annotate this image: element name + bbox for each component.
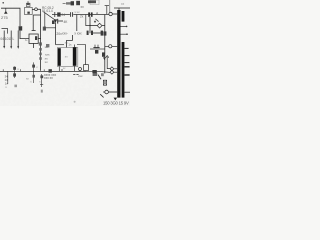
bottom-left pin column <box>7 71 9 84</box>
svg-text:81 01.4: 81 01.4 <box>42 9 53 13</box>
svg-text:xx: xx <box>81 5 85 9</box>
wire y44.5 across <box>56 44 64 46</box>
transformer bar right segment top <box>122 11 125 22</box>
transformer bar right segment main <box>122 42 125 98</box>
svg-text:x xx: x xx <box>75 10 81 14</box>
svg-text:1x: 1x <box>68 43 72 47</box>
capacitor C1 top <box>26 3 30 6</box>
blob <box>76 1 80 5</box>
diode D1 <box>54 19 57 22</box>
svg-text:04 1011 L: 04 1011 L <box>0 37 14 41</box>
component blob on bus <box>57 12 60 16</box>
node circle bottom right <box>105 90 109 94</box>
wire <box>32 8 34 10</box>
filter box FL1 <box>57 48 77 67</box>
filter left plate <box>58 48 61 66</box>
dot top-left <box>2 2 4 4</box>
wire top-left horizontal <box>1 8 20 26</box>
antenna T1 <box>5 8 7 11</box>
vertical x104.8 <box>104 15 106 74</box>
junction tick <box>54 12 56 17</box>
ground arrow below bars <box>114 98 117 101</box>
wire from bus down to filter <box>76 15 78 32</box>
node A <box>35 8 38 11</box>
fuse on bus <box>49 69 52 72</box>
lead from filter to bus <box>58 66 60 72</box>
arrow tick mid-right <box>107 57 110 69</box>
transformer bar left <box>117 10 120 98</box>
wire <box>37 8 40 10</box>
node diamond <box>97 23 102 28</box>
dashes below <box>73 74 78 76</box>
main bus y14.5 <box>52 14 70 16</box>
cluster mid-right <box>90 48 105 50</box>
bottom bus <box>0 70 86 72</box>
resistor R2 blob top <box>66 2 72 4</box>
svg-text:xx: xx <box>121 2 125 6</box>
resistor R3 top-right <box>88 0 96 3</box>
wire short vertical <box>44 13 46 26</box>
vertical x106.8 top <box>106 6 108 14</box>
pointer line <box>44 12 57 21</box>
connector pins left <box>3 31 5 47</box>
svg-text:04: 04 <box>61 13 65 17</box>
transistor Q1 blob <box>19 26 23 30</box>
box above bus x84-88 <box>84 65 89 71</box>
wire y27.8 <box>46 27 56 29</box>
wire bus stub <box>33 14 40 16</box>
vertical x85.8 <box>86 15 90 26</box>
svg-text:xx: xx <box>45 60 49 64</box>
small comp above node <box>103 80 106 85</box>
vertical x110 top right <box>109 0 111 12</box>
pins right side <box>121 25 128 27</box>
wire L bottom-left <box>2 29 8 34</box>
wire vertical main left-mid <box>40 9 42 71</box>
svg-text:2x: 2x <box>80 15 84 19</box>
box K1 <box>25 7 33 14</box>
svg-text:xxx-: xxx- <box>62 32 68 36</box>
filter right plate <box>73 47 77 66</box>
svg-text:xxx xx: xxx xx <box>44 76 53 80</box>
right connector: top line <box>114 7 130 9</box>
svg-text:x xxx: x xxx <box>74 31 82 35</box>
node diamonds left of bars <box>110 67 114 71</box>
svg-text:xx: xx <box>65 41 69 45</box>
node circle above bus <box>79 68 82 71</box>
wire <box>20 31 29 39</box>
IC U1 box <box>29 34 38 43</box>
node B circle <box>109 12 112 15</box>
blob x15 y85 <box>14 85 17 88</box>
wire to bars with node <box>105 46 109 48</box>
vertical from diode <box>55 23 57 45</box>
component blob row2 <box>52 20 55 24</box>
svg-text:275: 275 <box>1 15 8 20</box>
paper background <box>0 0 130 106</box>
component on bus x14.5 <box>14 66 16 78</box>
svg-text:xxx: xxx <box>78 74 83 78</box>
vertical x41.5 bottom <box>41 74 43 87</box>
ground foot under x33 line <box>32 30 36 32</box>
svg-text:150 3G0 15 9V: 150 3G0 15 9V <box>103 101 129 106</box>
vertical x33.5 bottom <box>33 62 35 83</box>
cap C2 on bus <box>70 12 72 17</box>
transistor Q2 cluster right-mid <box>88 12 90 16</box>
